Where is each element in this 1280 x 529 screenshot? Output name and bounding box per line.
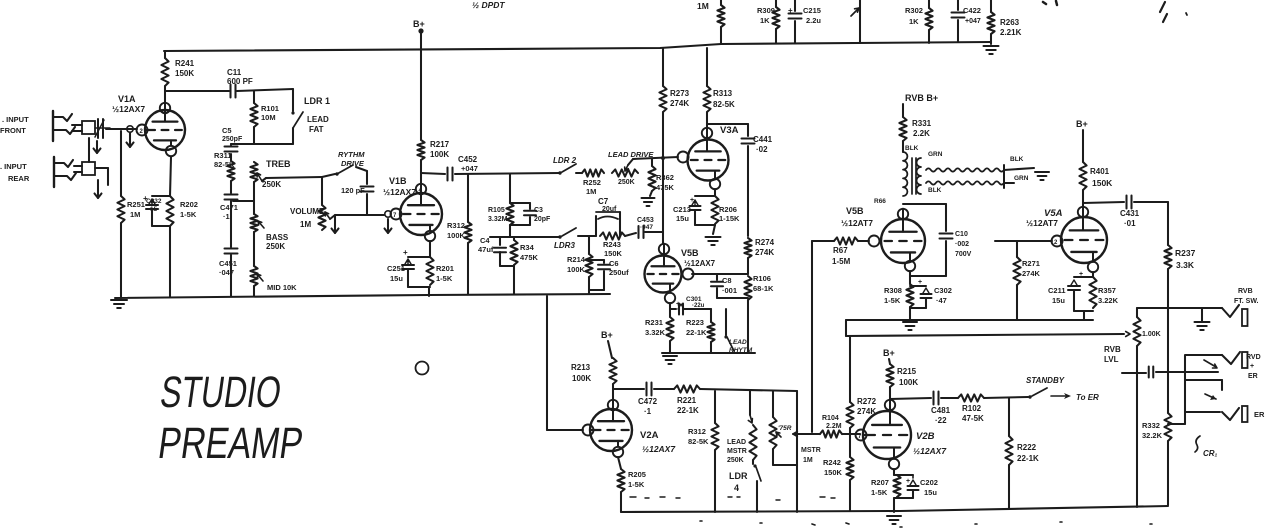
svg-text:120 pF: 120 pF xyxy=(341,186,365,195)
svg-text:C5: C5 xyxy=(222,126,232,135)
title STUDIO xyxy=(157,368,284,417)
svg-text:. INPUT: . INPUT xyxy=(2,115,29,124)
svg-text:½12AX7: ½12AX7 xyxy=(913,446,947,456)
label V1A xyxy=(118,94,136,104)
node junction (V3A grid) xyxy=(661,156,665,160)
wire V5B plate to R106 node xyxy=(692,273,748,275)
svg-text:1-5K: 1-5K xyxy=(628,480,645,489)
wire plate to C441 xyxy=(707,123,748,125)
connector box front xyxy=(72,121,95,134)
svg-text:15u: 15u xyxy=(390,274,403,283)
svg-text:100K: 100K xyxy=(899,378,918,387)
connector box rear xyxy=(74,162,95,175)
svg-text:R205: R205 xyxy=(628,470,646,479)
wire top feeder bus xyxy=(721,42,991,44)
jack J1 front input xyxy=(53,111,75,141)
arrow To ER xyxy=(1051,393,1099,402)
svg-text:C453: C453 xyxy=(637,217,654,224)
svg-text:To ER: To ER xyxy=(1076,393,1099,402)
label VOLUME 1M xyxy=(290,207,325,229)
node B+ dot xyxy=(418,28,423,33)
stray circle mark xyxy=(416,362,429,375)
resistor R241 150K xyxy=(161,51,194,103)
pin 2 digit xyxy=(140,129,144,135)
svg-text:½12AT7: ½12AT7 xyxy=(1026,218,1058,228)
svg-text:150K: 150K xyxy=(175,69,194,78)
resistor R101 10M xyxy=(250,91,279,144)
svg-text:+: + xyxy=(906,478,910,485)
transformer core xyxy=(912,158,916,194)
svg-text:274K: 274K xyxy=(1022,269,1041,278)
svg-text:20pF: 20pF xyxy=(534,216,551,223)
svg-text:C10: C10 xyxy=(955,231,968,238)
svg-text:V2A: V2A xyxy=(640,430,659,441)
svg-text:C471: C471 xyxy=(220,203,238,212)
ground arrow (jack2) xyxy=(95,180,102,198)
resistor R105 3.32M xyxy=(488,174,514,225)
svg-text:R66: R66 xyxy=(874,198,886,205)
label FRONT xyxy=(0,126,26,135)
svg-text:RVB: RVB xyxy=(1104,345,1121,354)
pot MSTR 475R xyxy=(769,391,797,465)
wire V2A grid from tone bus xyxy=(547,296,583,430)
svg-text:C211: C211 xyxy=(1048,286,1066,295)
svg-text:·1: ·1 xyxy=(223,212,230,221)
wire mid node row xyxy=(490,236,560,238)
wire V2B plate row xyxy=(890,398,931,399)
label C211 15u xyxy=(1048,286,1066,305)
svg-text:MSTR: MSTR xyxy=(801,447,821,454)
label LDR 2 xyxy=(553,156,577,165)
resistor R207 1.5K + capacitor C202 15u xyxy=(893,469,918,512)
label 1/2 12AX7 (V2A) xyxy=(642,444,676,454)
wire reverb cable bottom xyxy=(926,181,1004,184)
svg-text:R331: R331 xyxy=(912,119,932,128)
pin 7 digit (V2B) xyxy=(858,434,862,440)
svg-text:+: + xyxy=(1250,363,1254,370)
svg-text:FRONT: FRONT xyxy=(0,126,26,135)
svg-text:R309: R309 xyxy=(757,6,775,15)
capacitor C481 .22 xyxy=(931,392,951,426)
wire V1A plate to tone stack xyxy=(165,90,229,92)
resistor R272 274K (reverb) xyxy=(846,336,876,434)
label STANDBY xyxy=(1026,376,1065,385)
svg-text:R102: R102 xyxy=(962,404,982,413)
svg-text:C251: C251 xyxy=(387,264,405,273)
svg-text:R221: R221 xyxy=(677,396,697,405)
svg-text:3.3K: 3.3K xyxy=(1176,260,1195,270)
svg-text:BLK: BLK xyxy=(1010,156,1024,163)
svg-text:C6: C6 xyxy=(609,259,619,268)
svg-text:600 PF: 600 PF xyxy=(227,77,253,86)
label BLK (sec bottom) xyxy=(928,187,942,194)
svg-text:C431: C431 xyxy=(1120,209,1140,218)
svg-text:BLK: BLK xyxy=(928,187,942,194)
svg-text:C4: C4 xyxy=(480,236,490,245)
svg-text:150K: 150K xyxy=(1092,178,1113,188)
svg-text:R313: R313 xyxy=(713,89,733,98)
wire reverb ground bus xyxy=(846,319,1093,321)
label C202 15u xyxy=(920,478,938,497)
resistor R213 100K xyxy=(571,341,617,401)
wire V5A plate to C431 xyxy=(1083,202,1124,203)
wire volume wiper to V1B xyxy=(330,215,384,219)
svg-text:1M: 1M xyxy=(586,187,596,196)
svg-text:R213: R213 xyxy=(571,363,591,372)
resistor R251 1M xyxy=(117,131,145,298)
svg-text:C301: C301 xyxy=(686,296,702,303)
svg-text:·47: ·47 xyxy=(936,296,947,305)
svg-text:R105: R105 xyxy=(488,207,505,214)
svg-text:47uf: 47uf xyxy=(478,245,494,254)
capacitor C213 15u + resistor R206 1.15K xyxy=(690,189,719,234)
svg-text:R302: R302 xyxy=(905,6,923,15)
svg-text:·002: ·002 xyxy=(955,241,969,248)
capacitor C302 .47 xyxy=(910,279,952,308)
svg-text:. INPUT: . INPUT xyxy=(0,162,27,171)
label V2B xyxy=(916,431,935,442)
svg-text:R67: R67 xyxy=(833,246,848,255)
pin 4 digit xyxy=(419,188,423,194)
wire input to V1A grid xyxy=(106,128,137,130)
svg-text:R274: R274 xyxy=(755,238,775,247)
label 120 pF xyxy=(341,186,365,195)
wire V5A grid left xyxy=(995,240,1052,242)
svg-text:V5B: V5B xyxy=(681,248,699,258)
label V3A xyxy=(720,125,739,136)
svg-text:+047: +047 xyxy=(965,18,981,25)
tube V5B reverb driver xyxy=(869,209,926,271)
ground arrow (jack1) xyxy=(94,141,101,153)
node grid stopper circle xyxy=(127,126,133,132)
svg-text:15u: 15u xyxy=(924,488,937,497)
label LDR 1 xyxy=(304,96,330,106)
svg-text:B+: B+ xyxy=(413,19,425,29)
capacitor C7 20uf xyxy=(596,197,620,236)
wire RVB top to jack xyxy=(1137,307,1222,309)
svg-text:½12AX7: ½12AX7 xyxy=(642,444,676,454)
label R34 475K xyxy=(520,243,539,262)
svg-text:R206: R206 xyxy=(719,205,737,214)
label .22u xyxy=(692,303,705,309)
capacitor C232 15u + resistor R202 1.5K xyxy=(143,157,174,297)
svg-text:1M: 1M xyxy=(697,1,709,11)
svg-text:82-5K: 82-5K xyxy=(713,100,735,109)
svg-text:R312: R312 xyxy=(447,221,465,230)
jack J2 rear input xyxy=(54,157,76,187)
tube V1A xyxy=(137,103,186,156)
wire reverb signal to RVB LVL xyxy=(846,332,1130,337)
svg-text:LDR: LDR xyxy=(729,471,748,481)
svg-text:C481: C481 xyxy=(931,406,951,415)
svg-text:'75R: '75R xyxy=(778,425,792,432)
svg-text:C215: C215 xyxy=(803,6,821,15)
svg-text:R202: R202 xyxy=(180,200,198,209)
wire R105 down to node xyxy=(509,225,511,237)
svg-text:R311: R311 xyxy=(214,151,232,160)
svg-text:250K: 250K xyxy=(266,242,285,251)
svg-text:B+: B+ xyxy=(883,348,895,358)
wire pot wiper to V3A grid xyxy=(628,157,678,165)
resistor R237 3.3K xyxy=(1164,202,1195,308)
svg-text:C451: C451 xyxy=(219,259,237,268)
jack RVD+ER (box) xyxy=(1185,352,1248,380)
pot VOLUME 1M xyxy=(318,177,330,230)
tube V2A xyxy=(583,400,633,457)
title PREAMP xyxy=(155,419,306,468)
svg-text:RVB B+: RVB B+ xyxy=(905,93,938,103)
capacitor C4 47uf + resistor R34 475K xyxy=(478,236,518,294)
svg-text:R273: R273 xyxy=(670,89,690,98)
resistor R231 3.32K xyxy=(645,309,674,353)
resistor R263 2.21K xyxy=(987,0,1021,44)
svg-text:½12AX7: ½12AX7 xyxy=(112,104,145,114)
wire R102 to standby xyxy=(984,397,1028,398)
resistor R313 82.5K xyxy=(703,48,735,128)
resistor R67 1.5M xyxy=(812,237,869,266)
capacitor C3 20pF xyxy=(510,203,551,225)
svg-text:475K: 475K xyxy=(520,253,539,262)
svg-text:V1A: V1A xyxy=(118,94,136,104)
svg-text:C7: C7 xyxy=(598,197,609,206)
svg-text:RVB: RVB xyxy=(1238,288,1253,295)
label LEAD RHYTM xyxy=(729,339,753,354)
wire V5B ground bus xyxy=(662,352,755,354)
resistor R312 82.5K (bottom) xyxy=(688,391,719,512)
svg-text:·22u: ·22u xyxy=(692,303,705,309)
svg-text:C472: C472 xyxy=(638,397,658,406)
svg-text:R312: R312 xyxy=(688,427,706,436)
wire plate junction to C452 xyxy=(421,173,445,174)
svg-text:82-5K: 82-5K xyxy=(214,160,235,169)
svg-text:·1: ·1 xyxy=(644,407,652,416)
label 1/2 12AX7 (V1A) xyxy=(112,104,145,114)
label LDR3 xyxy=(554,241,575,250)
svg-text:MID 10K: MID 10K xyxy=(267,283,297,292)
capacitor C431 .01 xyxy=(1120,196,1168,229)
tube V5B xyxy=(645,244,694,303)
svg-text:1-5K: 1-5K xyxy=(884,296,901,305)
pot LEAD DRIVE xyxy=(612,165,638,177)
ground (footswitch) xyxy=(1195,308,1210,330)
pot wiper (top, cut off) xyxy=(851,0,860,43)
resistor R242 150K xyxy=(823,434,854,511)
svg-text:22-1K: 22-1K xyxy=(1017,454,1039,463)
wire C10 loop top xyxy=(903,203,946,205)
svg-text:STANDBY: STANDBY xyxy=(1026,376,1065,385)
svg-text:R401: R401 xyxy=(1090,167,1110,176)
label X. INPUT xyxy=(0,162,27,171)
switch LDR3 xyxy=(558,228,596,239)
svg-text:C11: C11 xyxy=(227,68,242,77)
capacitor C10 .002 700V xyxy=(910,204,972,276)
svg-text:1-5M: 1-5M xyxy=(832,257,851,266)
svg-text:2.2u: 2.2u xyxy=(806,16,821,25)
svg-text:FAT: FAT xyxy=(309,125,324,134)
svg-text:250pF: 250pF xyxy=(222,136,243,143)
resistor R222 22.1K xyxy=(1005,398,1039,508)
svg-text:LEAD: LEAD xyxy=(729,339,747,346)
svg-text:ER: ER xyxy=(1254,410,1265,419)
svg-text:R222: R222 xyxy=(1017,443,1037,452)
capacitor C422 .047 xyxy=(952,0,981,42)
label B+ (V1B supply) xyxy=(413,19,425,29)
label LEAD MSTR 250K xyxy=(727,439,747,464)
svg-text:250K: 250K xyxy=(727,457,744,464)
svg-text:REAR: REAR xyxy=(8,174,30,183)
svg-text:20uf: 20uf xyxy=(602,206,617,213)
ground (below R263) xyxy=(984,46,999,54)
label C251 15u xyxy=(387,264,405,283)
svg-text:1-5K: 1-5K xyxy=(871,488,888,497)
resistor R332 32.2K xyxy=(1142,413,1172,505)
resistor R309 1K xyxy=(757,0,780,43)
svg-text:32.2K: 32.2K xyxy=(1142,431,1163,440)
svg-text:R214: R214 xyxy=(567,255,586,264)
label MID 10K xyxy=(267,283,297,292)
label 1/2 12AX7 (V2B) xyxy=(913,446,947,456)
svg-text:·02: ·02 xyxy=(756,145,768,154)
ground (V5B bus) xyxy=(663,356,677,364)
ground (V2B cathode) xyxy=(887,516,901,524)
wire R221 to pots xyxy=(700,389,797,391)
label TREB xyxy=(266,159,291,169)
svg-text:1M: 1M xyxy=(803,457,813,464)
label LEAD DRIVE xyxy=(608,150,654,159)
resistor R223 22.1K xyxy=(686,309,715,353)
resistor R401 150K xyxy=(1079,130,1113,207)
label B+ (V2B) xyxy=(883,348,895,358)
resistor R312 100K xyxy=(447,174,472,294)
svg-text:V2B: V2B xyxy=(916,431,935,442)
svg-text:C422: C422 xyxy=(963,6,981,15)
svg-text:R237: R237 xyxy=(1175,248,1196,258)
capacitor C5 250PF xyxy=(222,126,243,152)
arrow (ground ref jack2) xyxy=(1205,394,1216,400)
wire R237 down xyxy=(1167,308,1169,413)
resistor R362 475K xyxy=(648,159,674,196)
svg-text:·01: ·01 xyxy=(1124,219,1136,228)
label BLK (primary) xyxy=(905,145,919,152)
tube V2B xyxy=(856,400,912,469)
switch LDR4 xyxy=(753,460,761,512)
capacitor C441 .02 xyxy=(742,124,773,236)
wire reverb return to jack2 xyxy=(1122,367,1218,378)
svg-text:R201: R201 xyxy=(436,264,454,273)
wire to C453 xyxy=(625,233,636,236)
svg-text:274K: 274K xyxy=(670,99,689,108)
capacitor C6 250uf xyxy=(589,259,629,290)
svg-text:GRN: GRN xyxy=(1014,175,1029,182)
switch RHYTHM DRIVE xyxy=(322,165,353,177)
switch LDR1 xyxy=(291,89,303,144)
wire main ground bus (upper) xyxy=(115,294,610,298)
tube V5A xyxy=(1052,207,1108,272)
svg-text:2.21K: 2.21K xyxy=(1000,28,1022,37)
label V5B (12AT7) xyxy=(846,206,864,216)
svg-text:C3: C3 xyxy=(534,207,543,214)
svg-text:·001: ·001 xyxy=(722,286,737,295)
svg-text:100K: 100K xyxy=(572,374,591,383)
svg-text:R272: R272 xyxy=(857,397,877,406)
svg-text:3.32M: 3.32M xyxy=(488,216,508,223)
tube V1B xyxy=(391,184,443,241)
wire mixer node xyxy=(793,432,820,437)
svg-text:15-: 15- xyxy=(150,206,159,213)
svg-text:R308: R308 xyxy=(884,286,902,295)
svg-text:LDR 2: LDR 2 xyxy=(553,156,577,165)
svg-text:3.22K: 3.22K xyxy=(1098,296,1119,305)
wire C11 to LDR1 xyxy=(237,89,293,91)
svg-text:700V: 700V xyxy=(955,251,972,258)
resistor R106 68.1K xyxy=(744,274,774,353)
pot RVB LVL 1.00K xyxy=(1133,308,1160,507)
jack RVB footswitch xyxy=(1222,305,1248,326)
svg-text:R207: R207 xyxy=(871,478,889,487)
label 1/2 12AT7 (V5A) xyxy=(1026,218,1058,228)
svg-text:LDR 1: LDR 1 xyxy=(304,96,330,106)
svg-text:R101: R101 xyxy=(261,104,279,113)
label R206 1.15K xyxy=(719,205,740,223)
wire tone stack link A-B xyxy=(231,143,254,145)
svg-text:100K: 100K xyxy=(430,150,449,159)
label LDR 4 xyxy=(729,471,748,493)
svg-text:274K: 274K xyxy=(755,248,774,257)
wire grid line down to V5B xyxy=(662,158,664,244)
label BASS 250K xyxy=(266,233,289,251)
ground arrow (volume) xyxy=(332,216,339,233)
svg-text:1M: 1M xyxy=(300,220,311,229)
svg-text:RYTHM: RYTHM xyxy=(338,150,365,159)
capacitor C451 .047 xyxy=(219,201,238,296)
pin 2 digit (V5A) xyxy=(1054,240,1058,246)
resistor R?? 1M (top, cut off) xyxy=(717,0,724,44)
plug symbol front xyxy=(95,119,110,138)
capacitor C452 .047 xyxy=(448,155,478,181)
label BLK (right) xyxy=(1010,156,1024,163)
svg-text:RVD: RVD xyxy=(1246,354,1261,361)
svg-text:BASS: BASS xyxy=(266,233,289,242)
svg-text:250K: 250K xyxy=(262,180,281,189)
svg-text:+: + xyxy=(918,279,922,286)
label RVB FT. SW. xyxy=(1234,288,1259,305)
svg-text:68-1K: 68-1K xyxy=(753,284,774,293)
label 1/2 12AT7 xyxy=(841,218,873,228)
svg-text:R243: R243 xyxy=(603,240,621,249)
resistor R214 100K xyxy=(567,237,593,293)
svg-text:·22: ·22 xyxy=(935,416,947,425)
ground (reverb driver cathode) xyxy=(903,322,917,330)
wire pot bus right xyxy=(796,391,798,512)
svg-text:VOLUME: VOLUME xyxy=(290,207,325,216)
resistor R274 274K xyxy=(744,238,774,274)
svg-text:TREB: TREB xyxy=(266,159,291,169)
svg-text:475K: 475K xyxy=(656,183,675,192)
pot BASS 250K xyxy=(250,182,264,232)
svg-text:C8: C8 xyxy=(722,276,732,285)
wire plate row (V2A) xyxy=(613,388,644,390)
wire link C471-B xyxy=(233,200,254,202)
resistor R252 1M xyxy=(576,169,604,196)
svg-text:C452: C452 xyxy=(458,155,478,164)
ground arrow (V1B grid) xyxy=(385,219,392,233)
svg-text:B+: B+ xyxy=(601,330,613,340)
pot MID 10K xyxy=(250,232,263,296)
label LEAD FAT xyxy=(307,115,329,134)
resistor R271 274K xyxy=(1013,241,1040,319)
capacitor C472 .1 xyxy=(638,383,658,417)
switch LEAD RHYTM xyxy=(724,309,734,351)
